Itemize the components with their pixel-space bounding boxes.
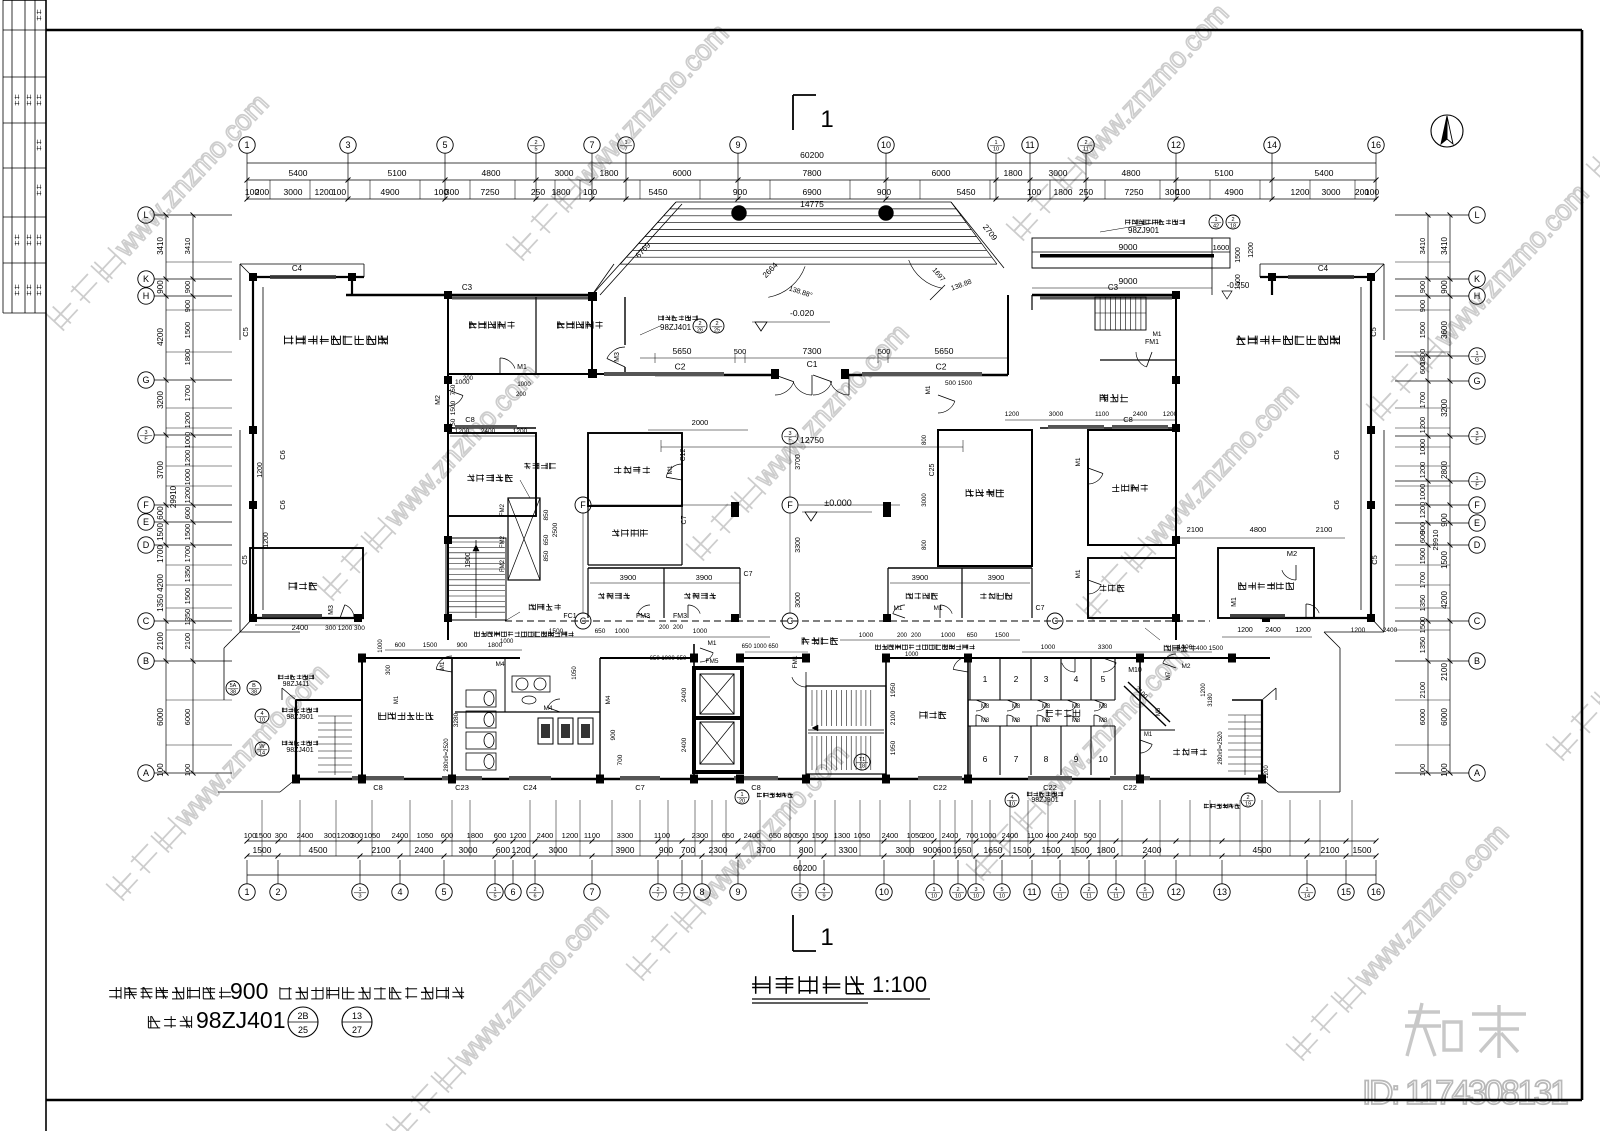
svg-text:4200: 4200 xyxy=(156,574,165,592)
svg-text:M3: M3 xyxy=(328,605,335,615)
svg-text:G: G xyxy=(1473,376,1480,386)
svg-text:1350: 1350 xyxy=(183,609,192,626)
svg-text:C: C xyxy=(787,616,794,626)
svg-text:3700: 3700 xyxy=(795,454,802,470)
svg-text:5400: 5400 xyxy=(1315,168,1334,178)
svg-text:M8: M8 xyxy=(981,718,990,724)
svg-text:FM2: FM2 xyxy=(500,503,506,516)
svg-text:1500: 1500 xyxy=(1235,274,1242,290)
svg-text:3900: 3900 xyxy=(620,573,637,582)
svg-text:9: 9 xyxy=(1074,754,1079,764)
svg-text:650: 650 xyxy=(543,534,550,545)
svg-text:3280: 3280 xyxy=(453,712,460,727)
svg-text:C12: C12 xyxy=(680,448,687,461)
svg-text:1500: 1500 xyxy=(1042,845,1061,855)
svg-text:2: 2 xyxy=(656,887,659,893)
svg-text:M1: M1 xyxy=(893,605,902,612)
svg-text:3700: 3700 xyxy=(757,845,776,855)
svg-text:C: C xyxy=(1052,616,1059,626)
svg-text:M1: M1 xyxy=(667,465,674,474)
svg-text:5: 5 xyxy=(534,147,537,153)
svg-text:1200: 1200 xyxy=(1264,765,1270,779)
svg-text:3000: 3000 xyxy=(549,845,568,855)
svg-text:42: 42 xyxy=(1213,224,1219,230)
svg-text:1000: 1000 xyxy=(980,831,997,840)
svg-text:4: 4 xyxy=(1074,674,1079,684)
svg-text:600: 600 xyxy=(1418,362,1427,375)
svg-text:280x9=2520: 280x9=2520 xyxy=(1218,731,1224,765)
svg-text:3: 3 xyxy=(345,140,350,150)
svg-text:10: 10 xyxy=(1009,802,1015,808)
svg-text:3000: 3000 xyxy=(1049,168,1068,178)
svg-text:600: 600 xyxy=(496,845,510,855)
svg-text:4900: 4900 xyxy=(381,187,400,197)
svg-text:3: 3 xyxy=(1044,674,1049,684)
svg-text:1300: 1300 xyxy=(834,831,851,840)
svg-text:M1: M1 xyxy=(1231,597,1238,607)
svg-text:C5: C5 xyxy=(240,555,249,565)
svg-text:4: 4 xyxy=(1010,795,1013,801)
svg-text:5400: 5400 xyxy=(289,168,308,178)
svg-text:7: 7 xyxy=(589,887,594,897)
svg-text:1200: 1200 xyxy=(1291,187,1310,197)
svg-text:FM1: FM1 xyxy=(1145,339,1159,346)
svg-text:2500: 2500 xyxy=(552,522,559,537)
svg-text:FM5: FM5 xyxy=(706,658,719,665)
svg-text:11: 11 xyxy=(1113,894,1119,900)
svg-text:3: 3 xyxy=(974,887,977,893)
svg-text:-0.020: -0.020 xyxy=(790,308,814,318)
svg-text:1500: 1500 xyxy=(1013,845,1032,855)
svg-text:19: 19 xyxy=(1245,802,1251,808)
svg-text:C7: C7 xyxy=(744,571,753,578)
svg-text:2100: 2100 xyxy=(1316,525,1333,534)
svg-text:1200: 1200 xyxy=(1237,627,1253,634)
svg-text:98ZJ401: 98ZJ401 xyxy=(286,747,313,754)
svg-text:E: E xyxy=(1474,518,1480,528)
svg-text:250: 250 xyxy=(531,187,545,197)
svg-text:800: 800 xyxy=(922,539,928,550)
svg-text:900: 900 xyxy=(183,281,192,294)
svg-text:1050: 1050 xyxy=(854,831,871,840)
svg-text:800: 800 xyxy=(922,434,928,445)
svg-text:1800: 1800 xyxy=(1004,168,1023,178)
svg-text:5: 5 xyxy=(442,140,447,150)
svg-text:3200: 3200 xyxy=(156,391,165,409)
svg-text:ID: 1174308131: ID: 1174308131 xyxy=(1362,1074,1568,1112)
svg-text:1200: 1200 xyxy=(1351,627,1366,634)
svg-text:300: 300 xyxy=(324,831,337,840)
svg-text:3300: 3300 xyxy=(1098,644,1113,651)
svg-text:M4: M4 xyxy=(495,661,504,668)
svg-text:3: 3 xyxy=(358,894,361,900)
svg-text:400: 400 xyxy=(1046,831,1059,840)
svg-text:1200: 1200 xyxy=(512,845,531,855)
svg-text:1000: 1000 xyxy=(183,469,192,486)
svg-text:2: 2 xyxy=(534,140,537,146)
svg-text:C1: C1 xyxy=(807,359,818,369)
svg-text:1700: 1700 xyxy=(156,545,165,563)
svg-text:2100: 2100 xyxy=(1418,682,1427,699)
svg-text:300: 300 xyxy=(351,831,364,840)
svg-text:1000: 1000 xyxy=(615,628,630,635)
svg-text:C6: C6 xyxy=(1332,450,1341,460)
svg-text:1650: 1650 xyxy=(984,845,1003,855)
svg-text:6: 6 xyxy=(510,887,515,897)
svg-text:400 1500: 400 1500 xyxy=(1196,645,1223,652)
svg-text:700: 700 xyxy=(617,754,624,765)
svg-text:C25: C25 xyxy=(929,463,936,476)
svg-text:650: 650 xyxy=(769,831,782,840)
svg-text:C22: C22 xyxy=(1123,783,1137,792)
svg-text:900: 900 xyxy=(457,642,468,649)
svg-text:7800: 7800 xyxy=(803,168,822,178)
svg-text:3900: 3900 xyxy=(696,573,713,582)
svg-text:1: 1 xyxy=(820,106,833,133)
svg-text:100: 100 xyxy=(183,764,192,777)
svg-text:27: 27 xyxy=(352,1025,362,1035)
svg-text:1200: 1200 xyxy=(1418,462,1427,479)
svg-text:6000: 6000 xyxy=(156,708,165,726)
svg-text:200: 200 xyxy=(255,187,269,197)
svg-text:B: B xyxy=(1474,656,1480,666)
svg-text:200: 200 xyxy=(922,831,935,840)
svg-text:16: 16 xyxy=(1371,140,1381,150)
svg-text:200: 200 xyxy=(463,376,474,382)
svg-text:M10: M10 xyxy=(1128,667,1142,674)
svg-text:700: 700 xyxy=(681,845,695,855)
svg-text:11: 11 xyxy=(1083,147,1089,153)
svg-text:8: 8 xyxy=(699,887,704,897)
svg-text:M1: M1 xyxy=(394,695,400,704)
svg-text:1200: 1200 xyxy=(1248,242,1255,258)
svg-text:200: 200 xyxy=(516,392,527,398)
svg-text:2400: 2400 xyxy=(1265,627,1281,634)
svg-text:98ZJ401: 98ZJ401 xyxy=(196,1007,286,1033)
svg-text:2400: 2400 xyxy=(744,831,761,840)
svg-text:M1: M1 xyxy=(925,385,932,394)
svg-text:7: 7 xyxy=(656,894,659,900)
svg-text:2100: 2100 xyxy=(1321,845,1340,855)
svg-text:C: C xyxy=(1474,616,1481,626)
svg-text:3700: 3700 xyxy=(156,461,165,479)
svg-text:100: 100 xyxy=(1440,763,1449,777)
svg-text:5100: 5100 xyxy=(388,168,407,178)
svg-text:W: W xyxy=(259,744,265,750)
svg-text:12750: 12750 xyxy=(800,435,824,445)
svg-text:M1: M1 xyxy=(1075,569,1082,578)
svg-text:A: A xyxy=(1474,768,1480,778)
svg-text:L: L xyxy=(1474,210,1479,220)
svg-text:1200: 1200 xyxy=(1005,411,1020,418)
svg-text:3: 3 xyxy=(1475,431,1478,437)
svg-text:1000: 1000 xyxy=(1041,644,1056,651)
svg-text:2400: 2400 xyxy=(882,831,899,840)
svg-text:9: 9 xyxy=(822,894,825,900)
svg-text:1: 1 xyxy=(493,887,496,893)
svg-text:3200: 3200 xyxy=(1440,399,1449,417)
svg-text:C4: C4 xyxy=(292,264,303,273)
svg-text:2400: 2400 xyxy=(942,831,959,840)
svg-text:3600: 3600 xyxy=(1440,321,1449,339)
svg-text:B: B xyxy=(143,656,149,666)
svg-text:2: 2 xyxy=(1084,140,1087,146)
svg-text:M8: M8 xyxy=(1099,718,1108,724)
svg-text:1200: 1200 xyxy=(1163,411,1178,418)
svg-text:6000: 6000 xyxy=(1418,709,1427,726)
svg-text:2: 2 xyxy=(715,321,718,327)
svg-text:6000: 6000 xyxy=(673,168,692,178)
svg-text:C8: C8 xyxy=(1123,415,1133,424)
svg-text:5: 5 xyxy=(1101,674,1106,684)
svg-text:5650: 5650 xyxy=(673,346,692,356)
svg-text:18: 18 xyxy=(859,764,865,770)
svg-text:1500: 1500 xyxy=(549,628,564,635)
svg-text:300 1200 300: 300 1200 300 xyxy=(325,625,365,632)
svg-text:1650: 1650 xyxy=(953,845,972,855)
svg-text:4500: 4500 xyxy=(309,845,328,855)
svg-text:C5: C5 xyxy=(1369,327,1378,337)
svg-text:C7: C7 xyxy=(681,515,688,524)
svg-text:2: 2 xyxy=(798,887,801,893)
svg-text:1000: 1000 xyxy=(183,432,192,449)
svg-text:13: 13 xyxy=(352,1011,362,1021)
svg-text:11: 11 xyxy=(1025,140,1034,150)
svg-text:K: K xyxy=(143,274,149,284)
svg-text:2B: 2B xyxy=(297,1011,308,1021)
svg-text:500: 500 xyxy=(1084,831,1097,840)
svg-text:2: 2 xyxy=(956,887,959,893)
svg-text:F: F xyxy=(787,500,793,510)
svg-text:1500: 1500 xyxy=(255,831,272,840)
svg-text:2: 2 xyxy=(1231,217,1234,223)
svg-text:M2: M2 xyxy=(435,395,442,405)
svg-text:1200: 1200 xyxy=(263,532,270,548)
svg-text:1100: 1100 xyxy=(1027,831,1043,840)
svg-text:1:100: 1:100 xyxy=(872,972,927,997)
svg-text:H: H xyxy=(143,291,150,301)
svg-text:5100: 5100 xyxy=(1215,168,1234,178)
svg-text:850: 850 xyxy=(543,509,550,520)
svg-text:1350: 1350 xyxy=(1418,595,1427,612)
svg-text:C8: C8 xyxy=(465,415,475,424)
svg-text:1500: 1500 xyxy=(1440,551,1449,569)
svg-text:900: 900 xyxy=(1418,281,1427,294)
svg-text:1500: 1500 xyxy=(183,322,192,339)
svg-text:G: G xyxy=(1475,358,1479,364)
svg-text:3000: 3000 xyxy=(922,493,928,507)
svg-text:500: 500 xyxy=(734,347,747,356)
svg-text:3000: 3000 xyxy=(459,845,478,855)
svg-text:5450: 5450 xyxy=(957,187,976,197)
svg-text:100: 100 xyxy=(1176,187,1190,197)
svg-text:C: C xyxy=(580,616,587,626)
svg-text:M1: M1 xyxy=(1075,457,1082,466)
svg-text:FM2: FM2 xyxy=(500,535,506,548)
svg-text:2400: 2400 xyxy=(1143,845,1162,855)
svg-text:98ZJ901: 98ZJ901 xyxy=(1031,797,1058,804)
svg-text:600: 600 xyxy=(1418,531,1427,544)
svg-text:3300: 3300 xyxy=(617,831,634,840)
svg-text:4200: 4200 xyxy=(156,328,165,346)
svg-text:10: 10 xyxy=(1098,754,1108,764)
svg-text:1000: 1000 xyxy=(1178,644,1193,651)
svg-text:3: 3 xyxy=(788,431,791,437)
svg-text:2400: 2400 xyxy=(415,845,434,855)
svg-text:2400: 2400 xyxy=(392,831,409,840)
svg-text:2100: 2100 xyxy=(1187,525,1204,534)
svg-text:2000: 2000 xyxy=(692,418,709,427)
svg-text:1000: 1000 xyxy=(517,382,531,388)
svg-text:1950: 1950 xyxy=(890,740,897,755)
svg-text:2400: 2400 xyxy=(681,737,688,752)
svg-text:C22: C22 xyxy=(933,783,947,792)
svg-text:1100: 1100 xyxy=(584,831,600,840)
svg-text:1500: 1500 xyxy=(1418,322,1427,339)
svg-text:16: 16 xyxy=(1371,887,1381,897)
svg-text:200: 200 xyxy=(659,625,670,631)
svg-text:1: 1 xyxy=(820,924,833,951)
svg-text:3410: 3410 xyxy=(1440,237,1449,255)
svg-text:850: 850 xyxy=(543,550,550,561)
svg-text:1050: 1050 xyxy=(417,831,434,840)
svg-text:C3: C3 xyxy=(1108,283,1119,292)
svg-text:1200: 1200 xyxy=(257,462,264,478)
svg-text:3410: 3410 xyxy=(183,238,192,255)
svg-text:900: 900 xyxy=(659,845,673,855)
svg-text:1200: 1200 xyxy=(183,487,192,504)
svg-text:4: 4 xyxy=(397,887,402,897)
svg-text:FM3: FM3 xyxy=(673,613,687,620)
svg-text:7300: 7300 xyxy=(803,346,822,356)
svg-text:C7: C7 xyxy=(635,783,645,792)
svg-text:6000: 6000 xyxy=(932,168,951,178)
svg-text:26: 26 xyxy=(697,328,703,334)
svg-text:900: 900 xyxy=(1440,513,1449,527)
svg-text:100: 100 xyxy=(1365,187,1379,197)
svg-text:±0.000: ±0.000 xyxy=(824,498,851,508)
svg-text:9: 9 xyxy=(735,887,740,897)
svg-text:14: 14 xyxy=(1304,894,1310,900)
svg-text:10: 10 xyxy=(973,894,979,900)
svg-text:11: 11 xyxy=(1142,894,1148,900)
svg-text:M3: M3 xyxy=(614,352,621,362)
svg-text:1200: 1200 xyxy=(315,187,334,197)
svg-text:1500: 1500 xyxy=(1353,845,1372,855)
svg-text:M2: M2 xyxy=(1181,663,1190,670)
svg-text:3: 3 xyxy=(144,430,147,436)
svg-text:4: 4 xyxy=(822,887,825,893)
svg-text:11: 11 xyxy=(1057,894,1063,900)
svg-text:650: 650 xyxy=(595,628,606,635)
svg-text:500: 500 xyxy=(878,347,891,356)
svg-text:1800: 1800 xyxy=(1097,845,1116,855)
svg-text:10: 10 xyxy=(881,140,891,150)
svg-text:900: 900 xyxy=(156,280,165,294)
svg-text:3900: 3900 xyxy=(616,845,635,855)
svg-text:1: 1 xyxy=(1475,351,1478,357)
svg-text:10: 10 xyxy=(259,718,265,724)
svg-text:3000: 3000 xyxy=(1322,187,1341,197)
svg-text:FM2: FM2 xyxy=(500,559,506,572)
svg-text:25: 25 xyxy=(714,328,720,334)
svg-text:1: 1 xyxy=(1305,887,1308,893)
svg-text:2: 2 xyxy=(1087,887,1090,893)
svg-text:M4: M4 xyxy=(605,695,612,704)
svg-text:1: 1 xyxy=(358,887,361,893)
svg-text:800: 800 xyxy=(799,845,813,855)
svg-text:1350: 1350 xyxy=(156,594,165,612)
svg-text:900: 900 xyxy=(610,729,617,740)
svg-text:1800: 1800 xyxy=(600,168,619,178)
svg-text:300: 300 xyxy=(445,187,459,197)
svg-text:3000: 3000 xyxy=(795,592,802,608)
svg-text:2400: 2400 xyxy=(297,831,314,840)
svg-text:C24: C24 xyxy=(523,783,537,792)
svg-text:M8: M8 xyxy=(1042,704,1051,710)
svg-text:1350: 1350 xyxy=(183,566,192,583)
svg-text:900: 900 xyxy=(183,300,192,313)
svg-text:2: 2 xyxy=(533,887,536,893)
svg-text:1200: 1200 xyxy=(183,412,192,429)
svg-text:6: 6 xyxy=(533,894,536,900)
svg-text:1: 1 xyxy=(1058,887,1061,893)
svg-text:2400: 2400 xyxy=(1383,627,1398,634)
svg-text:C7: C7 xyxy=(1036,605,1045,612)
svg-text:1000: 1000 xyxy=(859,632,874,639)
svg-text:C22: C22 xyxy=(1043,783,1057,792)
svg-text:4900: 4900 xyxy=(1225,187,1244,197)
svg-text:T1: T1 xyxy=(859,757,865,763)
svg-text:1050: 1050 xyxy=(572,666,578,680)
svg-text:C2: C2 xyxy=(936,362,947,372)
svg-text:1100: 1100 xyxy=(1095,411,1109,418)
svg-text:C6: C6 xyxy=(278,450,287,460)
svg-text:F: F xyxy=(580,500,586,510)
svg-text:3000: 3000 xyxy=(284,187,303,197)
svg-text:2100: 2100 xyxy=(1440,663,1449,681)
svg-text:C2: C2 xyxy=(675,362,686,372)
svg-text:1500: 1500 xyxy=(995,632,1010,639)
svg-text:20: 20 xyxy=(739,799,745,805)
svg-text:2: 2 xyxy=(698,321,701,327)
svg-text:14775: 14775 xyxy=(800,199,824,209)
svg-text:900: 900 xyxy=(733,187,747,197)
svg-text:1700: 1700 xyxy=(1418,572,1427,589)
svg-text:5: 5 xyxy=(493,894,496,900)
svg-text:900: 900 xyxy=(877,187,891,197)
svg-text:4800: 4800 xyxy=(482,168,501,178)
svg-text:600: 600 xyxy=(395,642,406,649)
svg-text:C4: C4 xyxy=(1318,264,1329,273)
svg-text:1700: 1700 xyxy=(183,546,192,563)
svg-text:29910: 29910 xyxy=(1431,530,1440,551)
svg-text:6000: 6000 xyxy=(1440,708,1449,726)
svg-text:280x9=2520: 280x9=2520 xyxy=(444,738,450,772)
svg-text:600: 600 xyxy=(937,845,951,855)
svg-text:12: 12 xyxy=(1171,887,1181,897)
svg-text:3180: 3180 xyxy=(1208,693,1214,707)
svg-text:1200: 1200 xyxy=(513,428,528,435)
svg-text:M7: M7 xyxy=(1166,671,1172,680)
svg-text:D: D xyxy=(143,540,150,550)
svg-text:1500: 1500 xyxy=(1071,845,1090,855)
svg-text:1500: 1500 xyxy=(156,523,165,541)
svg-text:900: 900 xyxy=(923,845,937,855)
svg-text:1350: 1350 xyxy=(1418,637,1427,654)
svg-text:M8: M8 xyxy=(1012,718,1021,724)
svg-text:1000: 1000 xyxy=(941,632,956,639)
